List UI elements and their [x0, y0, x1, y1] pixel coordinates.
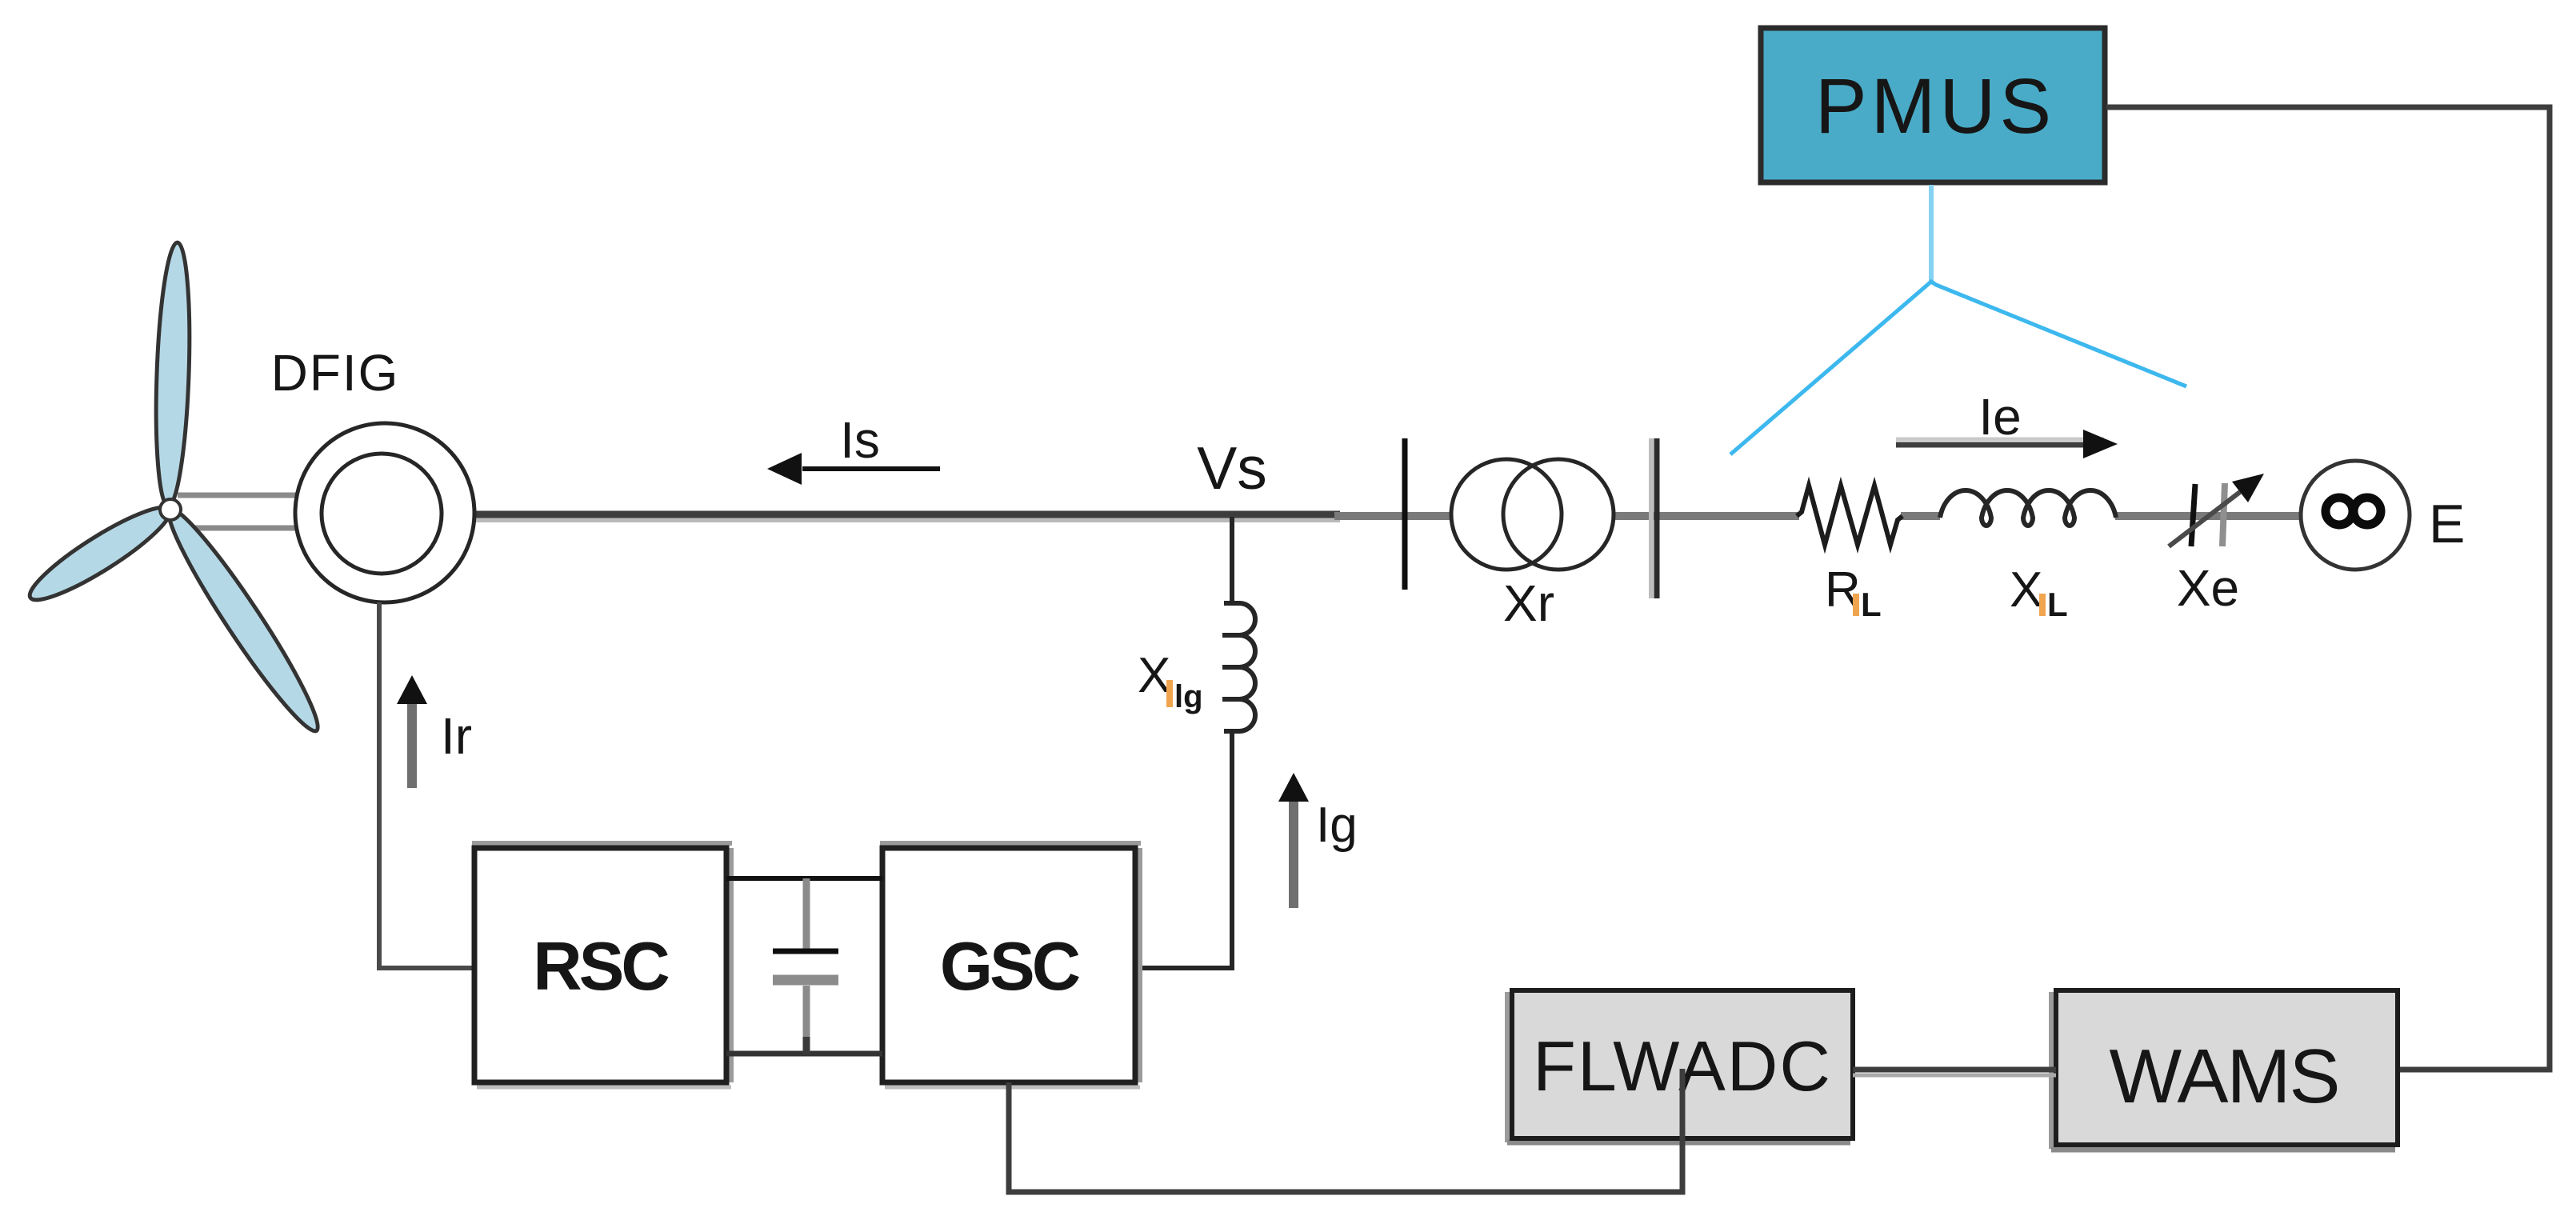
- transformer Xr right circle: [1503, 459, 1614, 570]
- wire: bus from transformer right circle through right bus bar to resistor: [1614, 512, 1799, 520]
- svg-text:DFIG: DFIG: [271, 344, 400, 402]
- generator DFIG outer circle: [295, 423, 474, 602]
- label R with subscript L (colored): [1825, 562, 1882, 623]
- PMUS box: [1761, 28, 2105, 182]
- wire: FLWADC to WAMS: [1853, 1070, 2056, 1075]
- svg-text:GSC: GSC: [940, 929, 1080, 1005]
- generator DFIG inner circle: [322, 454, 442, 574]
- wire: from Xlg coil down and left into GSC: [1137, 730, 1232, 968]
- arrow Ie (line current, pointing right): [1896, 430, 2118, 458]
- svg-text:X: X: [1138, 648, 1170, 703]
- svg-text:PMUS: PMUS: [1815, 62, 2055, 150]
- svg-text:L: L: [2047, 586, 2068, 623]
- wire: rotor connection from DFIG down to RSC: [379, 602, 475, 968]
- converter RSC box: [472, 843, 732, 1087]
- wire: main stator bus from DFIG to Vs node (dark with light shadow): [476, 514, 1340, 520]
- wire: PMUS to WAMS feedback (right side loop): [2106, 107, 2550, 1070]
- wire: DC link bottom between RSC and GSC: [726, 1051, 882, 1057]
- infinity symbol inside bus: [2326, 498, 2381, 525]
- wire: bus between resistor and XL coil: [1901, 512, 1940, 520]
- svg-text:E: E: [2429, 494, 2465, 554]
- WAMS box: [2051, 990, 2398, 1150]
- bus bar left of transformer: [1402, 438, 1408, 590]
- converter GSC box: [880, 843, 1141, 1087]
- bus bar right of transformer: [1651, 438, 1657, 598]
- inductor Xlg (vertical coil, bumps to right): [1222, 603, 1255, 731]
- label X with subscript L (colored): [2010, 562, 2068, 623]
- wire: GSC bottom to FLWADC: [1009, 1069, 1682, 1192]
- wind turbine blade lower-left: [22, 495, 179, 612]
- svg-text:WAMS: WAMS: [2109, 1034, 2338, 1119]
- svg-text:Vs: Vs: [1197, 434, 1267, 502]
- svg-text:Xr: Xr: [1503, 574, 1554, 632]
- wind turbine blade lower-right: [156, 500, 330, 740]
- cyan PMU measurement tap lines: [1730, 185, 2186, 454]
- arrow Is (stator current, pointing left): [767, 453, 940, 485]
- arrow Ig (GSC current): [1278, 773, 1309, 908]
- wire: vertical drop from Vs node to Xlg coil: [1230, 517, 1234, 605]
- variable reactance Xe: bar 2 (gray): [2222, 483, 2225, 546]
- svg-text:L: L: [1861, 586, 1882, 623]
- label X with subscript lg (colored): [1138, 648, 1203, 714]
- FLWADC box: [1507, 990, 1853, 1142]
- svg-text:RSC: RSC: [533, 929, 669, 1005]
- svg-text:Ie: Ie: [1978, 388, 2021, 446]
- svg-text:X: X: [2010, 562, 2042, 618]
- wire: bus from Vs node to transformer left circle: [1334, 512, 1450, 520]
- svg-text:Ig: Ig: [1316, 798, 1358, 853]
- infinite bus circle: [2301, 461, 2410, 570]
- inductor XL (horizontal coil): [1940, 490, 2116, 526]
- arrow Ir (rotor current): [397, 675, 427, 788]
- svg-text:lg: lg: [1174, 679, 1203, 714]
- transformer Xr left circle: [1451, 459, 1562, 570]
- svg-text:Is: Is: [840, 411, 880, 469]
- turbine hub: [160, 499, 181, 520]
- svg-text:Ir: Ir: [441, 707, 472, 765]
- wire: DC link top between RSC and GSC: [726, 876, 882, 881]
- variable reactance Xe: bar 1 (black): [2191, 484, 2195, 546]
- capacitor C (DC link): [773, 878, 838, 1054]
- resistor RL: [1797, 486, 1902, 545]
- svg-text:Xe: Xe: [2177, 559, 2239, 617]
- variable reactance Xe: diagonal arrow: [2169, 474, 2264, 546]
- turbine shaft lines: [178, 495, 296, 528]
- wire: bus between XL coil and Xe, through Xe to infinite bus: [2115, 512, 2302, 520]
- wind turbine blade top: [152, 242, 193, 506]
